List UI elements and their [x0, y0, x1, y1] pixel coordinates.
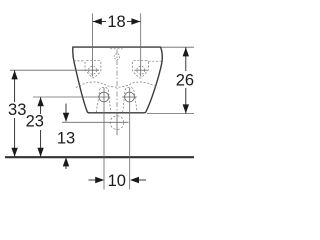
- svg-text:26: 26: [176, 72, 194, 90]
- extension line 18 right: [140, 14, 142, 77]
- hidden bowl curve: [76, 82, 158, 88]
- right shield (hidden boss around top-right hole): [133, 61, 149, 78]
- crosshair tick outlet vertical: [116, 112, 118, 136]
- top-left fixing hole: [89, 66, 97, 74]
- dimension 13 lower arrow (points up): [63, 157, 69, 166]
- dimension 23 bottom arrow: [37, 148, 43, 157]
- extension line 10 right: [129, 88, 131, 190]
- svg-text:33: 33: [8, 101, 26, 119]
- svg-text:23: 23: [26, 113, 44, 131]
- dimension 18 left arrow: [93, 18, 102, 24]
- dimension 13 upper stem: [65, 104, 67, 122]
- dimension 33 bottom arrow: [11, 148, 17, 157]
- dimension 23 line: [40, 97, 42, 114]
- dimension 10 left arrow (points right): [95, 177, 104, 183]
- small supply circle: [114, 54, 120, 60]
- hidden dash connector right: [149, 60, 162, 62]
- dimension 23 top arrow: [37, 97, 43, 106]
- dimension 33 line: [14, 70, 16, 102]
- svg-text:10: 10: [108, 172, 126, 190]
- dimension 10 left tail: [89, 179, 97, 181]
- crosshair tick lower-right hole: [122, 96, 137, 98]
- dimension 18 line: [93, 21, 106, 23]
- svg-text:18: 18: [107, 13, 125, 31]
- centre line (dash-dot): [116, 50, 118, 112]
- dimension 10 right tail: [138, 179, 147, 181]
- dimension 18 right arrow: [131, 18, 140, 24]
- right tent (hidden boss around lower-right hole): [123, 87, 138, 112]
- svg-text:13: 13: [57, 130, 75, 148]
- top-right fixing hole: [137, 66, 145, 74]
- dimension 26 line: [185, 47, 187, 71]
- extension line 10 left: [103, 88, 105, 190]
- dimension 13 upper arrow (points down): [63, 113, 69, 122]
- outlet circle: [110, 116, 124, 130]
- hidden dash connector left: [74, 60, 85, 62]
- extension line 33 (top, to left fixing hole): [10, 69, 99, 71]
- dimension 33 top arrow: [11, 70, 17, 79]
- dimension 26 top arrow: [183, 47, 189, 56]
- lower-right fixing hole: [125, 92, 135, 102]
- lower-left fixing hole: [99, 92, 109, 102]
- extension line 26 bottom: [147, 113, 194, 115]
- extension line 23 (to lower-left fixing hole): [33, 96, 110, 98]
- dimension 10 right arrow (points left): [130, 177, 139, 183]
- hidden dash below top edge: [110, 48, 123, 50]
- left shield (hidden boss around top-left hole): [85, 61, 101, 78]
- extension line 18 left: [92, 14, 94, 77]
- left tent (hidden boss around lower-left hole): [96, 87, 111, 112]
- bidet body outline: [73, 47, 163, 113]
- dimension 26 bottom arrow: [183, 104, 189, 113]
- crosshair tick top-right hole: [134, 69, 147, 71]
- extension line 26 top: [161, 46, 194, 48]
- floor line: [5, 156, 194, 158]
- extension line 13 (to outlet centre): [62, 121, 129, 123]
- dimension 13 lower stem: [65, 158, 67, 169]
